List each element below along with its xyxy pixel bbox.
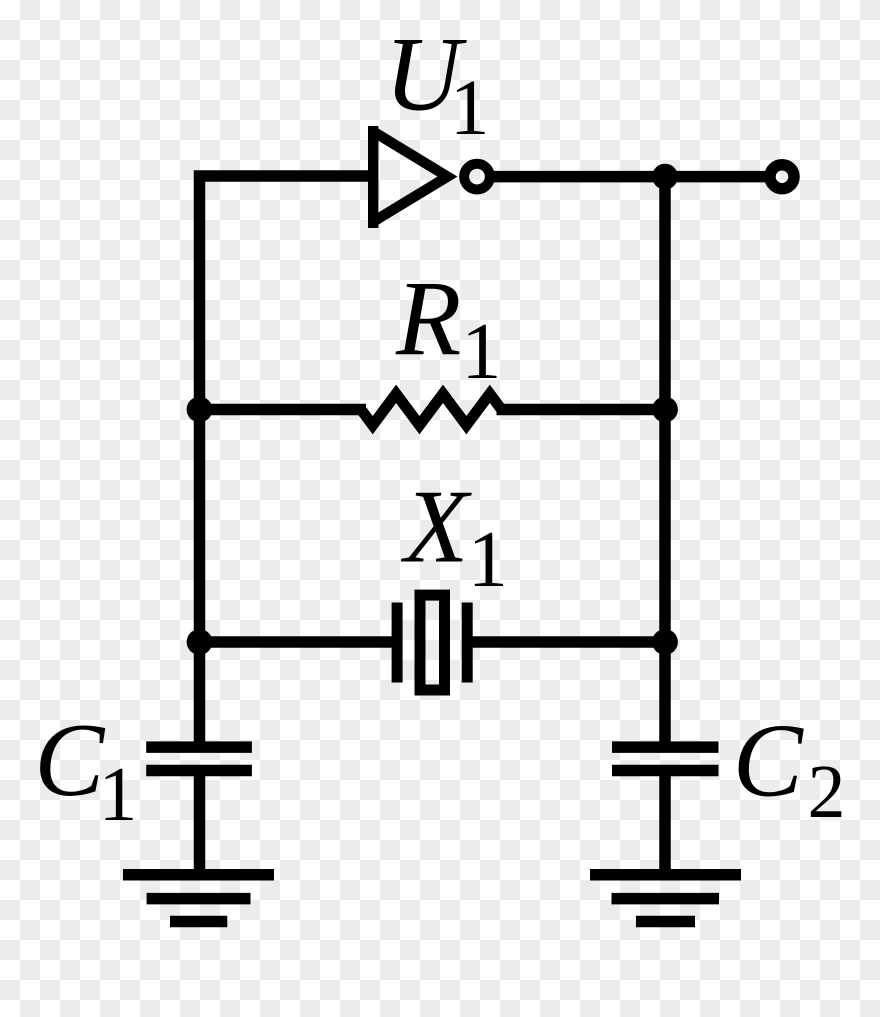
node junction X1 right: [652, 629, 678, 655]
op-amp U1 inverter triangle: [373, 126, 490, 228]
ground (C1): [123, 875, 274, 922]
node junction R1 left: [187, 397, 213, 423]
svg-text:C: C: [733, 702, 805, 819]
svg-text:1: 1: [468, 516, 508, 604]
wire right rail: [659, 177, 671, 748]
wire output: bubble to terminal: [488, 171, 766, 183]
resistor R1 zigzag: [361, 394, 502, 425]
ground (C2): [590, 875, 741, 922]
crystal X1: [397, 595, 467, 690]
wire R1 row left: [200, 404, 367, 416]
wire C2 to ground: [659, 771, 671, 876]
capacitor C2: [612, 747, 719, 770]
svg-text:C: C: [34, 701, 106, 818]
capacitor C1: [146, 747, 252, 770]
node junction top right: [652, 164, 678, 190]
node junction X1 left: [187, 629, 213, 655]
svg-text:R: R: [395, 261, 461, 379]
wire R1 row right: [497, 404, 666, 416]
svg-text:2: 2: [808, 750, 846, 834]
svg-text:1: 1: [450, 65, 490, 152]
wire X1 row right: [472, 636, 665, 648]
svg-text:1: 1: [99, 751, 138, 837]
node junction R1 right: [652, 397, 678, 423]
wire input loop: top wire and left rail: [200, 176, 374, 747]
wire C1 to ground: [194, 771, 206, 876]
svg-text:X: X: [400, 468, 472, 585]
svg-text:1: 1: [461, 308, 501, 396]
wire X1 row left: [200, 636, 393, 648]
op-amp U1 inversion bubble: [464, 164, 490, 190]
output terminal node: [770, 165, 794, 189]
